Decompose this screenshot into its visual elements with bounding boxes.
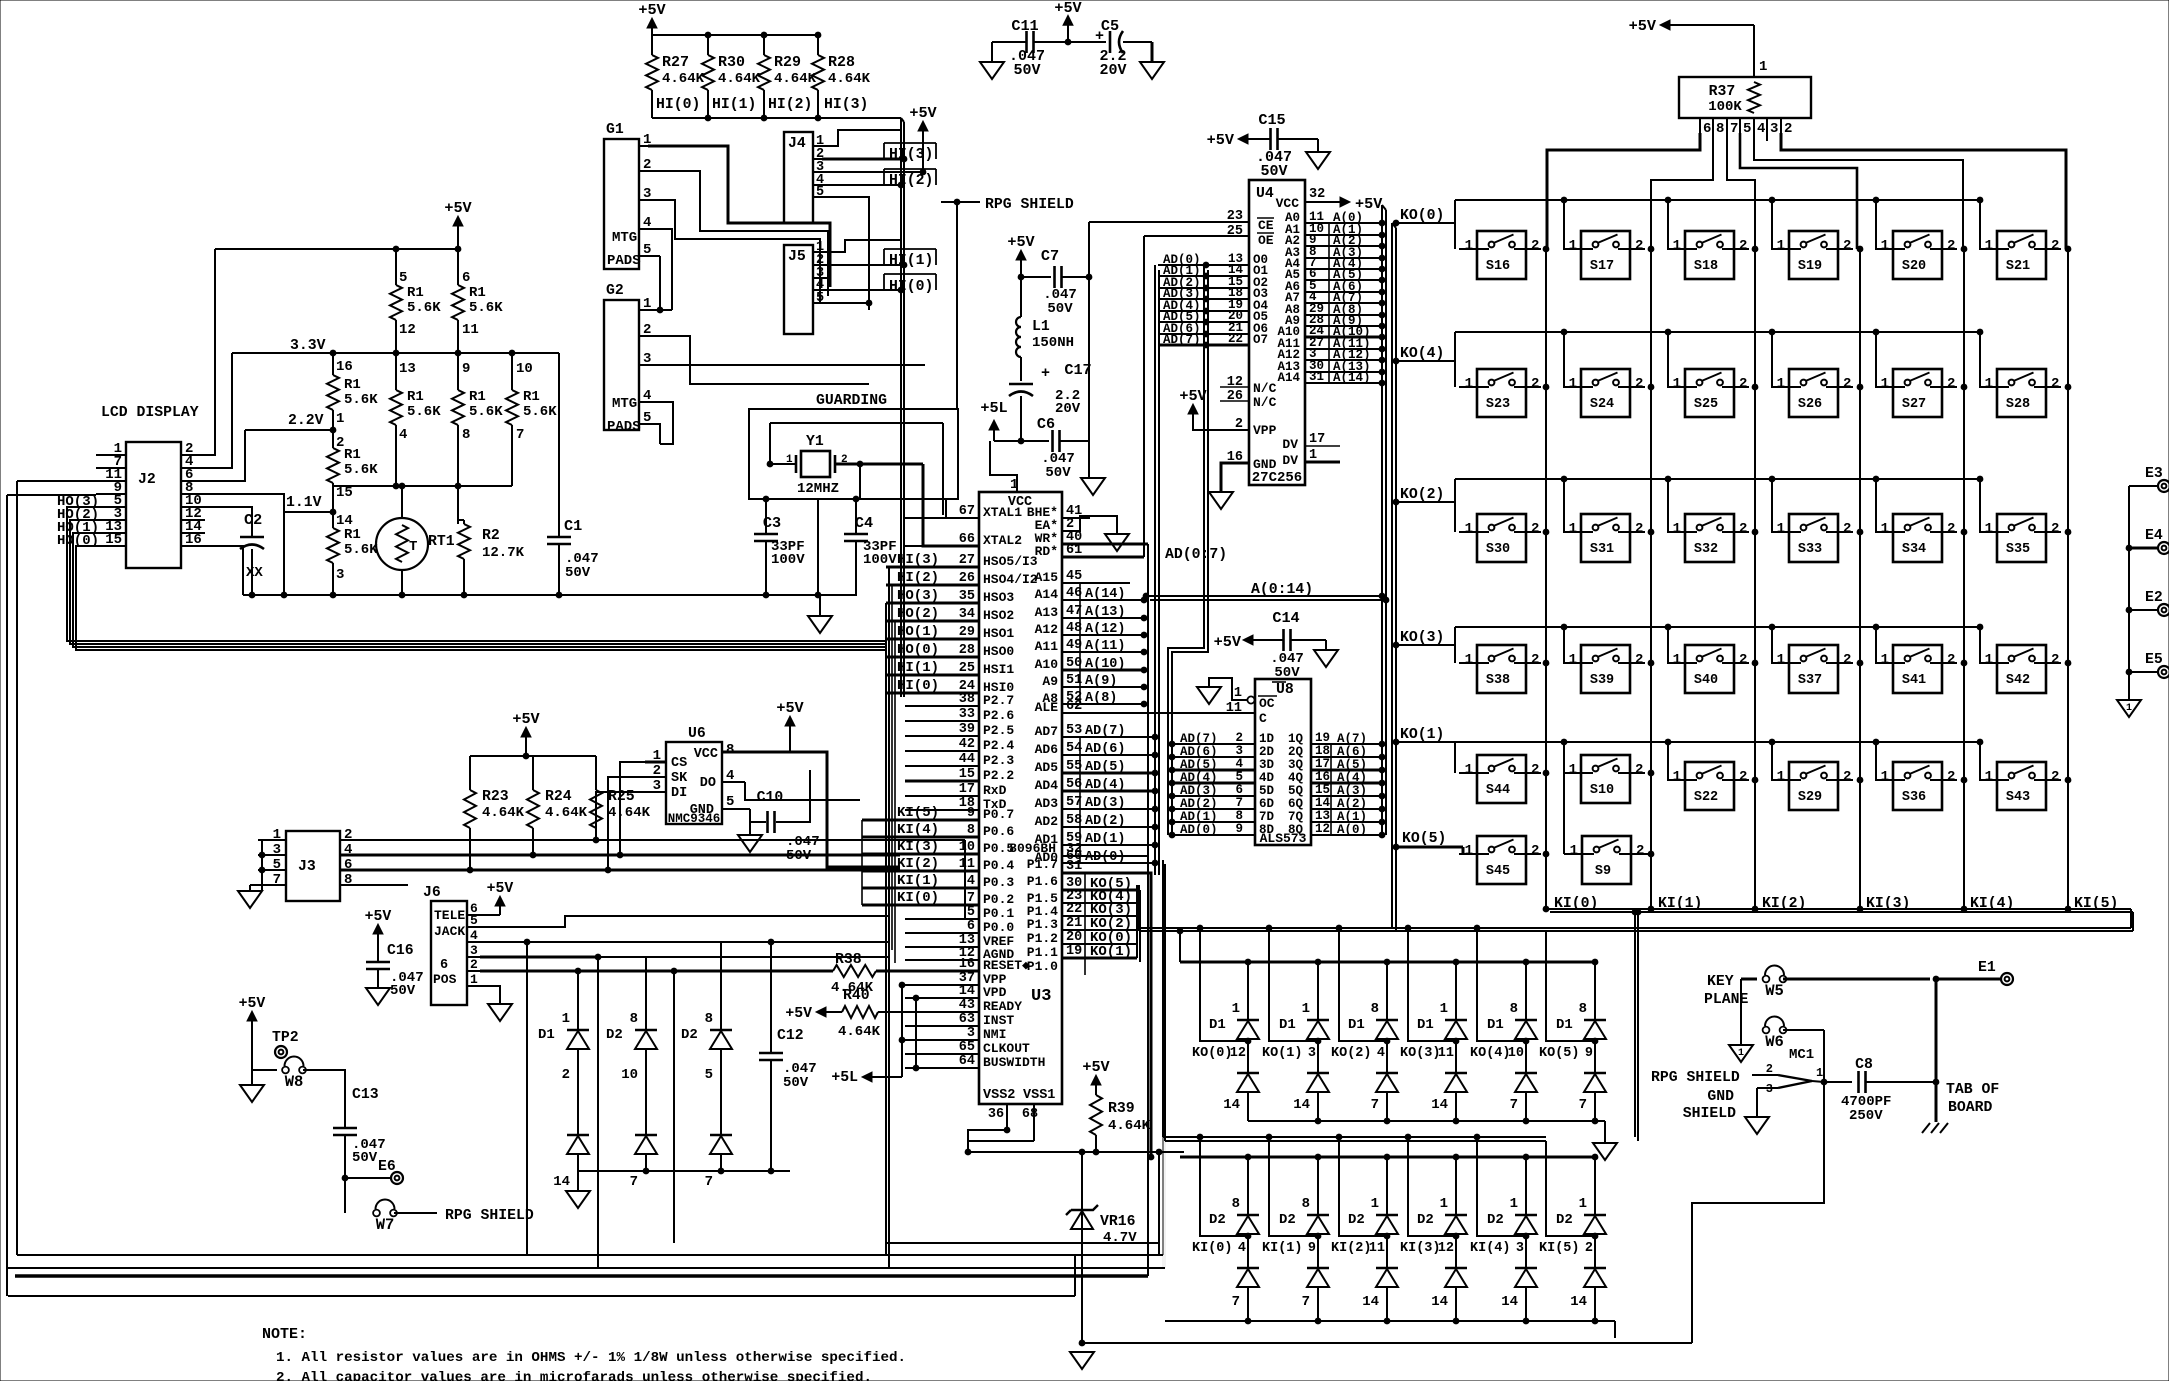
svg-text:2: 2 (1947, 238, 1955, 254)
svg-text:2: 2 (1843, 652, 1851, 668)
svg-text:1: 1 (1777, 769, 1785, 785)
svg-text:XTAL2: XTAL2 (983, 533, 1022, 548)
svg-text:R1: R1 (344, 447, 361, 463)
svg-text:10: 10 (621, 1067, 638, 1083)
svg-text:VSS2: VSS2 (983, 1088, 1015, 1103)
svg-text:HSO0: HSO0 (983, 644, 1014, 659)
svg-text:7D: 7D (1259, 810, 1275, 824)
svg-text:2: 2 (1635, 376, 1643, 392)
svg-text:J4: J4 (788, 136, 806, 152)
svg-text:P0.0: P0.0 (983, 920, 1014, 935)
svg-text:MTG: MTG (612, 396, 637, 412)
svg-text:D2: D2 (1279, 1212, 1296, 1228)
svg-text:2: 2 (1739, 769, 1747, 785)
svg-text:22: 22 (1066, 902, 1082, 917)
svg-text:4: 4 (1757, 121, 1765, 137)
svg-text:1. All resistor values are in: 1. All resistor values are in OHMS +/- 1… (276, 1350, 906, 1366)
svg-text:C17: C17 (1064, 361, 1091, 379)
svg-text:A11: A11 (1035, 639, 1059, 654)
svg-text:50V: 50V (783, 1075, 809, 1091)
svg-text:KO(5): KO(5) (1402, 831, 1446, 847)
svg-text:100V: 100V (771, 552, 805, 568)
svg-text:5.6K: 5.6K (344, 462, 378, 478)
svg-text:5.6K: 5.6K (344, 392, 378, 408)
svg-text:14: 14 (1570, 1294, 1587, 1310)
svg-text:1: 1 (1985, 376, 1993, 392)
svg-text:S30: S30 (1486, 542, 1510, 557)
svg-text:R1: R1 (469, 285, 486, 301)
svg-text:S35: S35 (2006, 542, 2030, 557)
svg-text:2: 2 (1635, 238, 1643, 254)
svg-text:2: 2 (1585, 1241, 1593, 1256)
svg-text:R28: R28 (828, 54, 855, 71)
svg-text:16: 16 (1315, 770, 1330, 784)
svg-text:R1: R1 (523, 389, 540, 405)
svg-text:VCC: VCC (1276, 196, 1300, 211)
svg-text:1: 1 (1371, 1196, 1379, 1212)
svg-text:D2: D2 (681, 1027, 698, 1043)
svg-text:C4: C4 (855, 514, 873, 532)
svg-text:2.2V: 2.2V (288, 413, 324, 429)
svg-text:R30: R30 (718, 54, 745, 71)
svg-text:E2: E2 (2145, 590, 2163, 606)
svg-text:AD(2): AD(2) (1085, 814, 1126, 829)
svg-text:C8: C8 (1855, 1057, 1873, 1073)
svg-text:C13: C13 (352, 1087, 379, 1103)
svg-text:E5: E5 (2145, 652, 2163, 668)
svg-text:2: 2 (1635, 652, 1643, 668)
svg-text:1: 1 (1570, 843, 1578, 859)
svg-text:DO: DO (700, 776, 716, 791)
svg-text:11: 11 (462, 322, 479, 338)
svg-text:P2.3: P2.3 (983, 753, 1014, 768)
svg-text:1: 1 (1232, 1001, 1240, 1017)
svg-text:39: 39 (959, 722, 975, 737)
svg-text:2: 2 (1739, 652, 1747, 668)
svg-text:4: 4 (1235, 757, 1243, 771)
svg-text:32: 32 (1309, 187, 1325, 202)
svg-text:5: 5 (967, 905, 975, 920)
svg-text:20: 20 (1066, 930, 1082, 945)
svg-text:22: 22 (1228, 332, 1243, 346)
svg-text:GUARDING: GUARDING (816, 393, 887, 409)
svg-text:1: 1 (1465, 521, 1473, 537)
svg-text:A(0): A(0) (1337, 823, 1367, 837)
svg-text:P0.7: P0.7 (983, 807, 1014, 822)
svg-text:P0.3: P0.3 (983, 875, 1014, 890)
svg-text:S24: S24 (1590, 397, 1614, 412)
svg-text:A(14): A(14) (1085, 587, 1126, 602)
svg-text:S29: S29 (1798, 790, 1822, 805)
svg-text:2: 2 (1739, 521, 1747, 537)
svg-text:KI(0): KI(0) (1192, 1241, 1233, 1256)
svg-text:RESET◆: RESET◆ (983, 958, 1030, 973)
svg-text:2: 2 (1739, 238, 1747, 254)
svg-text:2: 2 (1235, 731, 1243, 745)
svg-text:D1: D1 (1209, 1017, 1226, 1033)
svg-text:AD6: AD6 (1035, 742, 1059, 757)
svg-text:RD*: RD* (1035, 544, 1058, 559)
svg-text:+5V: +5V (1007, 233, 1035, 251)
svg-text:+5V: +5V (1207, 131, 1235, 149)
svg-text:1: 1 (1465, 762, 1473, 778)
svg-text:100K: 100K (1708, 99, 1742, 115)
svg-text:A(14): A(14) (1333, 371, 1371, 385)
svg-text:8: 8 (1235, 809, 1243, 823)
svg-text:S22: S22 (1694, 790, 1718, 805)
svg-text:U8: U8 (1276, 682, 1294, 698)
svg-text:XX: XX (246, 565, 263, 581)
svg-text:VPP: VPP (1253, 423, 1277, 438)
svg-text:D1: D1 (1348, 1017, 1365, 1033)
svg-text:S39: S39 (1590, 673, 1614, 688)
svg-text:AD(4): AD(4) (1085, 778, 1126, 793)
svg-text:+5V: +5V (1629, 17, 1657, 35)
svg-text:AD2: AD2 (1035, 814, 1059, 829)
svg-text:A(2): A(2) (1337, 797, 1367, 811)
svg-text:KO(5): KO(5) (1539, 1046, 1580, 1061)
svg-text:HSO5/I3: HSO5/I3 (983, 554, 1038, 569)
svg-text:12: 12 (1315, 822, 1330, 836)
svg-text:31: 31 (1309, 370, 1324, 384)
svg-text:2: 2 (1843, 521, 1851, 537)
svg-text:S25: S25 (1694, 397, 1718, 412)
svg-text:2: 2 (1947, 521, 1955, 537)
svg-text:KO(0): KO(0) (1400, 208, 1444, 224)
svg-text:1: 1 (1465, 843, 1473, 859)
svg-text:3.3V: 3.3V (290, 338, 326, 354)
svg-text:A10: A10 (1035, 657, 1059, 672)
svg-text:7: 7 (1371, 1097, 1379, 1113)
svg-text:5D: 5D (1259, 784, 1275, 798)
svg-text:VPD: VPD (983, 985, 1007, 1000)
svg-text:1: 1 (786, 454, 793, 466)
svg-text:7: 7 (1579, 1097, 1587, 1113)
svg-text:4.64K: 4.64K (774, 71, 817, 87)
svg-text:1: 1 (1881, 238, 1889, 254)
svg-text:KI(4): KI(4) (1470, 1241, 1511, 1256)
svg-text:3Q: 3Q (1288, 758, 1304, 772)
svg-text:S10: S10 (1590, 783, 1614, 798)
svg-text:S17: S17 (1590, 259, 1614, 274)
svg-text:2: 2 (1531, 238, 1539, 254)
svg-text:8: 8 (1302, 1196, 1310, 1212)
svg-text:6: 6 (1235, 783, 1243, 797)
svg-text:L1: L1 (1032, 319, 1050, 335)
svg-text:JACK: JACK (434, 924, 465, 939)
svg-text:4: 4 (1238, 1241, 1246, 1256)
svg-text:G1: G1 (606, 122, 624, 138)
svg-text:HSO4/I2: HSO4/I2 (983, 572, 1038, 587)
svg-text:4.64K: 4.64K (545, 805, 588, 821)
svg-text:R1: R1 (344, 527, 361, 543)
svg-text:+5V: +5V (1054, 0, 1082, 17)
svg-text:E4: E4 (2145, 528, 2163, 544)
svg-text:HI(1): HI(1) (889, 253, 933, 269)
svg-text:1: 1 (1881, 376, 1889, 392)
svg-text:42: 42 (959, 737, 975, 752)
svg-text:S16: S16 (1486, 259, 1510, 274)
svg-text:KEY: KEY (1707, 974, 1734, 990)
svg-text:1: 1 (1569, 376, 1577, 392)
svg-text:+5V: +5V (365, 909, 392, 925)
svg-text:1: 1 (1816, 1066, 1823, 1080)
svg-text:8: 8 (726, 742, 734, 758)
svg-text:W6: W6 (1765, 1033, 1784, 1051)
svg-text:+5L: +5L (980, 399, 1007, 417)
svg-text:R27: R27 (662, 54, 689, 71)
svg-text:C: C (1259, 711, 1267, 726)
svg-text:1: 1 (1738, 1048, 1744, 1059)
svg-text:S21: S21 (2006, 259, 2030, 274)
svg-text:W5: W5 (1765, 982, 1784, 1000)
svg-text:A13: A13 (1035, 605, 1059, 620)
svg-text:J2: J2 (138, 472, 156, 488)
svg-text:43: 43 (959, 998, 975, 1013)
svg-text:P0.2: P0.2 (983, 892, 1014, 907)
svg-text:1: 1 (1569, 238, 1577, 254)
svg-text:S45: S45 (1486, 864, 1510, 879)
svg-text:TP2: TP2 (272, 1030, 299, 1046)
svg-text:14: 14 (1315, 796, 1331, 810)
svg-text:7: 7 (516, 427, 524, 443)
svg-text:AD(5): AD(5) (1180, 758, 1218, 772)
svg-text:3: 3 (1235, 744, 1243, 758)
svg-text:ALE: ALE (1035, 700, 1059, 715)
svg-text:8: 8 (1510, 1001, 1518, 1017)
svg-text:P2.7: P2.7 (983, 693, 1014, 708)
svg-text:HI(2): HI(2) (768, 97, 812, 113)
svg-text:2: 2 (841, 454, 848, 466)
svg-text:5.6K: 5.6K (407, 300, 441, 316)
svg-text:1: 1 (1881, 521, 1889, 537)
svg-text:AD(3): AD(3) (1180, 784, 1218, 798)
svg-text:A(9): A(9) (1085, 674, 1117, 689)
svg-text:HI(0): HI(0) (889, 279, 933, 295)
svg-text:64: 64 (959, 1054, 975, 1069)
svg-text:1: 1 (1777, 376, 1785, 392)
svg-text:1: 1 (1777, 652, 1785, 668)
svg-text:6: 6 (440, 958, 448, 973)
svg-text:HI(3): HI(3) (889, 147, 933, 163)
svg-text:5: 5 (726, 794, 734, 810)
svg-text:HI(0): HI(0) (656, 97, 700, 113)
svg-text:A(12): A(12) (1085, 622, 1126, 637)
svg-text:1: 1 (1579, 1196, 1587, 1212)
svg-text:D1: D1 (538, 1027, 555, 1043)
svg-text:2: 2 (1531, 762, 1539, 778)
svg-text:R24: R24 (545, 789, 572, 805)
svg-text:VSS1: VSS1 (1023, 1088, 1055, 1103)
svg-text:KO(0): KO(0) (1192, 1046, 1233, 1061)
svg-text:AD(6): AD(6) (1085, 742, 1126, 757)
svg-text:READY: READY (983, 999, 1022, 1014)
svg-text:2: 2 (1636, 843, 1644, 859)
svg-text:50V: 50V (1045, 465, 1071, 481)
svg-text:P1.1: P1.1 (1027, 945, 1058, 960)
svg-text:2: 2 (1947, 769, 1955, 785)
svg-text:A(8): A(8) (1085, 691, 1117, 706)
svg-text:1: 1 (1234, 686, 1242, 701)
svg-text:MTG: MTG (612, 230, 637, 246)
svg-text:LCD DISPLAY: LCD DISPLAY (101, 405, 199, 421)
svg-text:1: 1 (470, 972, 478, 987)
svg-text:HI(1): HI(1) (712, 97, 756, 113)
svg-text:S40: S40 (1694, 673, 1718, 688)
svg-text:1: 1 (1465, 376, 1473, 392)
svg-text:S26: S26 (1798, 397, 1822, 412)
svg-text:KI(2): KI(2) (1331, 1241, 1372, 1256)
svg-text:R40: R40 (843, 988, 870, 1004)
svg-text:2: 2 (562, 1067, 570, 1083)
svg-text:S18: S18 (1694, 259, 1718, 274)
svg-text:1: 1 (653, 748, 661, 764)
svg-text:E1: E1 (1978, 960, 1996, 976)
svg-text:1: 1 (1985, 769, 1993, 785)
svg-text:HSI1: HSI1 (983, 662, 1014, 677)
svg-text:65: 65 (959, 1040, 975, 1055)
svg-text:50V: 50V (1260, 163, 1287, 180)
svg-text:PADS: PADS (607, 253, 641, 269)
svg-text:XTAL1: XTAL1 (983, 505, 1022, 520)
svg-text:P0.1: P0.1 (983, 906, 1014, 921)
svg-text:27C256: 27C256 (1252, 470, 1302, 486)
svg-text:P2.2: P2.2 (983, 768, 1014, 783)
svg-text:T: T (409, 539, 417, 555)
svg-text:A14: A14 (1035, 587, 1059, 602)
svg-text:TELE: TELE (434, 908, 465, 923)
svg-text:5.6K: 5.6K (407, 404, 441, 420)
svg-text:20V: 20V (1099, 62, 1126, 79)
svg-text:2: 2 (1739, 376, 1747, 392)
svg-text:A(13): A(13) (1085, 605, 1126, 620)
svg-text:12MHZ: 12MHZ (797, 481, 839, 497)
svg-text:INST: INST (983, 1013, 1014, 1028)
svg-text:14: 14 (1293, 1097, 1310, 1113)
svg-text:D2: D2 (1556, 1212, 1573, 1228)
svg-text:14: 14 (1223, 1097, 1240, 1113)
svg-text:C1: C1 (564, 517, 582, 535)
svg-text:N/C: N/C (1253, 395, 1277, 410)
svg-text:D2: D2 (1209, 1212, 1226, 1228)
svg-text:P1.6: P1.6 (1027, 874, 1058, 889)
svg-text:2: 2 (2051, 652, 2059, 668)
svg-text:S36: S36 (1902, 790, 1926, 805)
svg-text:8: 8 (1371, 1001, 1379, 1017)
svg-text:RT1: RT1 (428, 534, 455, 550)
svg-text:S41: S41 (1902, 673, 1926, 688)
svg-text:AD7: AD7 (1035, 724, 1058, 739)
svg-text:KI(5): KI(5) (1539, 1241, 1580, 1256)
svg-text:2: 2 (1531, 652, 1539, 668)
svg-text:14: 14 (1431, 1294, 1448, 1310)
svg-text:2: 2 (1531, 521, 1539, 537)
svg-text:36: 36 (988, 1107, 1004, 1122)
svg-text:1: 1 (273, 827, 281, 843)
svg-text:R38: R38 (835, 952, 862, 968)
svg-text:P2.4: P2.4 (983, 738, 1014, 753)
svg-text:2: 2 (2051, 238, 2059, 254)
svg-text:1: 1 (1465, 652, 1473, 668)
svg-text:1D: 1D (1259, 732, 1275, 746)
svg-text:GND: GND (1707, 1089, 1734, 1105)
svg-text:KO(2): KO(2) (1331, 1046, 1372, 1061)
svg-text:7Q: 7Q (1288, 810, 1304, 824)
svg-text:1: 1 (1881, 652, 1889, 668)
svg-text:DV: DV (1282, 453, 1298, 468)
svg-text:AD(7): AD(7) (1163, 333, 1201, 347)
svg-text:CLKOUT: CLKOUT (983, 1041, 1030, 1056)
svg-text:A(11): A(11) (1085, 639, 1126, 654)
svg-text:+5V: +5V (785, 1006, 812, 1022)
svg-text:4D: 4D (1259, 771, 1275, 785)
svg-text:D1: D1 (1487, 1017, 1504, 1033)
svg-text:12: 12 (399, 322, 416, 338)
svg-text:R2: R2 (482, 528, 500, 544)
svg-text:E3: E3 (2145, 466, 2163, 482)
svg-text:D1: D1 (1279, 1017, 1296, 1033)
svg-text:R39: R39 (1108, 1101, 1135, 1117)
svg-text:7: 7 (1302, 1294, 1310, 1310)
svg-text:12.7K: 12.7K (482, 545, 525, 561)
svg-text:2: 2 (1947, 652, 1955, 668)
svg-text:1: 1 (1985, 238, 1993, 254)
svg-text:RxD: RxD (983, 783, 1007, 798)
svg-text:5.6K: 5.6K (469, 404, 503, 420)
svg-text:2: 2 (470, 957, 478, 972)
svg-text:HSO3: HSO3 (983, 590, 1014, 605)
svg-text:S23: S23 (1486, 397, 1510, 412)
svg-text:67: 67 (959, 504, 975, 519)
svg-text:1: 1 (1985, 521, 1993, 537)
svg-text:C7: C7 (1041, 247, 1059, 265)
svg-text:S43: S43 (2006, 790, 2030, 805)
svg-text:8: 8 (462, 427, 470, 443)
svg-text:KO(1): KO(1) (1400, 727, 1444, 743)
svg-text:4.64K: 4.64K (718, 71, 761, 87)
svg-text:2: 2 (1235, 417, 1243, 432)
svg-text:AD(1): AD(1) (1180, 810, 1218, 824)
svg-text:1: 1 (2126, 703, 2132, 714)
svg-text:8: 8 (1579, 1001, 1587, 1017)
svg-text:7: 7 (273, 872, 281, 888)
svg-text:10: 10 (516, 361, 533, 377)
svg-text:9: 9 (1235, 822, 1243, 836)
svg-text:AD3: AD3 (1035, 796, 1059, 811)
svg-text:50V: 50V (565, 565, 591, 581)
svg-text:1: 1 (1673, 521, 1681, 537)
svg-text:A(7): A(7) (1337, 732, 1367, 746)
svg-text:3: 3 (967, 1026, 975, 1041)
svg-text:50V: 50V (1047, 301, 1073, 317)
svg-text:7: 7 (1510, 1097, 1518, 1113)
svg-text:+5V: +5V (487, 881, 514, 897)
svg-text:+5V: +5V (776, 699, 804, 717)
svg-text:150NH: 150NH (1032, 335, 1074, 351)
svg-text:1: 1 (1985, 652, 1993, 668)
svg-text:RPG SHIELD: RPG SHIELD (445, 1208, 534, 1224)
svg-text:2: 2 (1843, 769, 1851, 785)
svg-text:AD(2): AD(2) (1180, 797, 1218, 811)
svg-text:8: 8 (1716, 121, 1724, 137)
svg-text:KO(1): KO(1) (1262, 1046, 1303, 1061)
svg-text:5.6K: 5.6K (469, 300, 503, 316)
svg-text:D2: D2 (606, 1027, 623, 1043)
svg-text:S44: S44 (1486, 783, 1510, 798)
svg-text:OC: OC (1259, 696, 1275, 711)
svg-text:1: 1 (1759, 59, 1767, 75)
svg-text:N/C: N/C (1253, 381, 1277, 396)
